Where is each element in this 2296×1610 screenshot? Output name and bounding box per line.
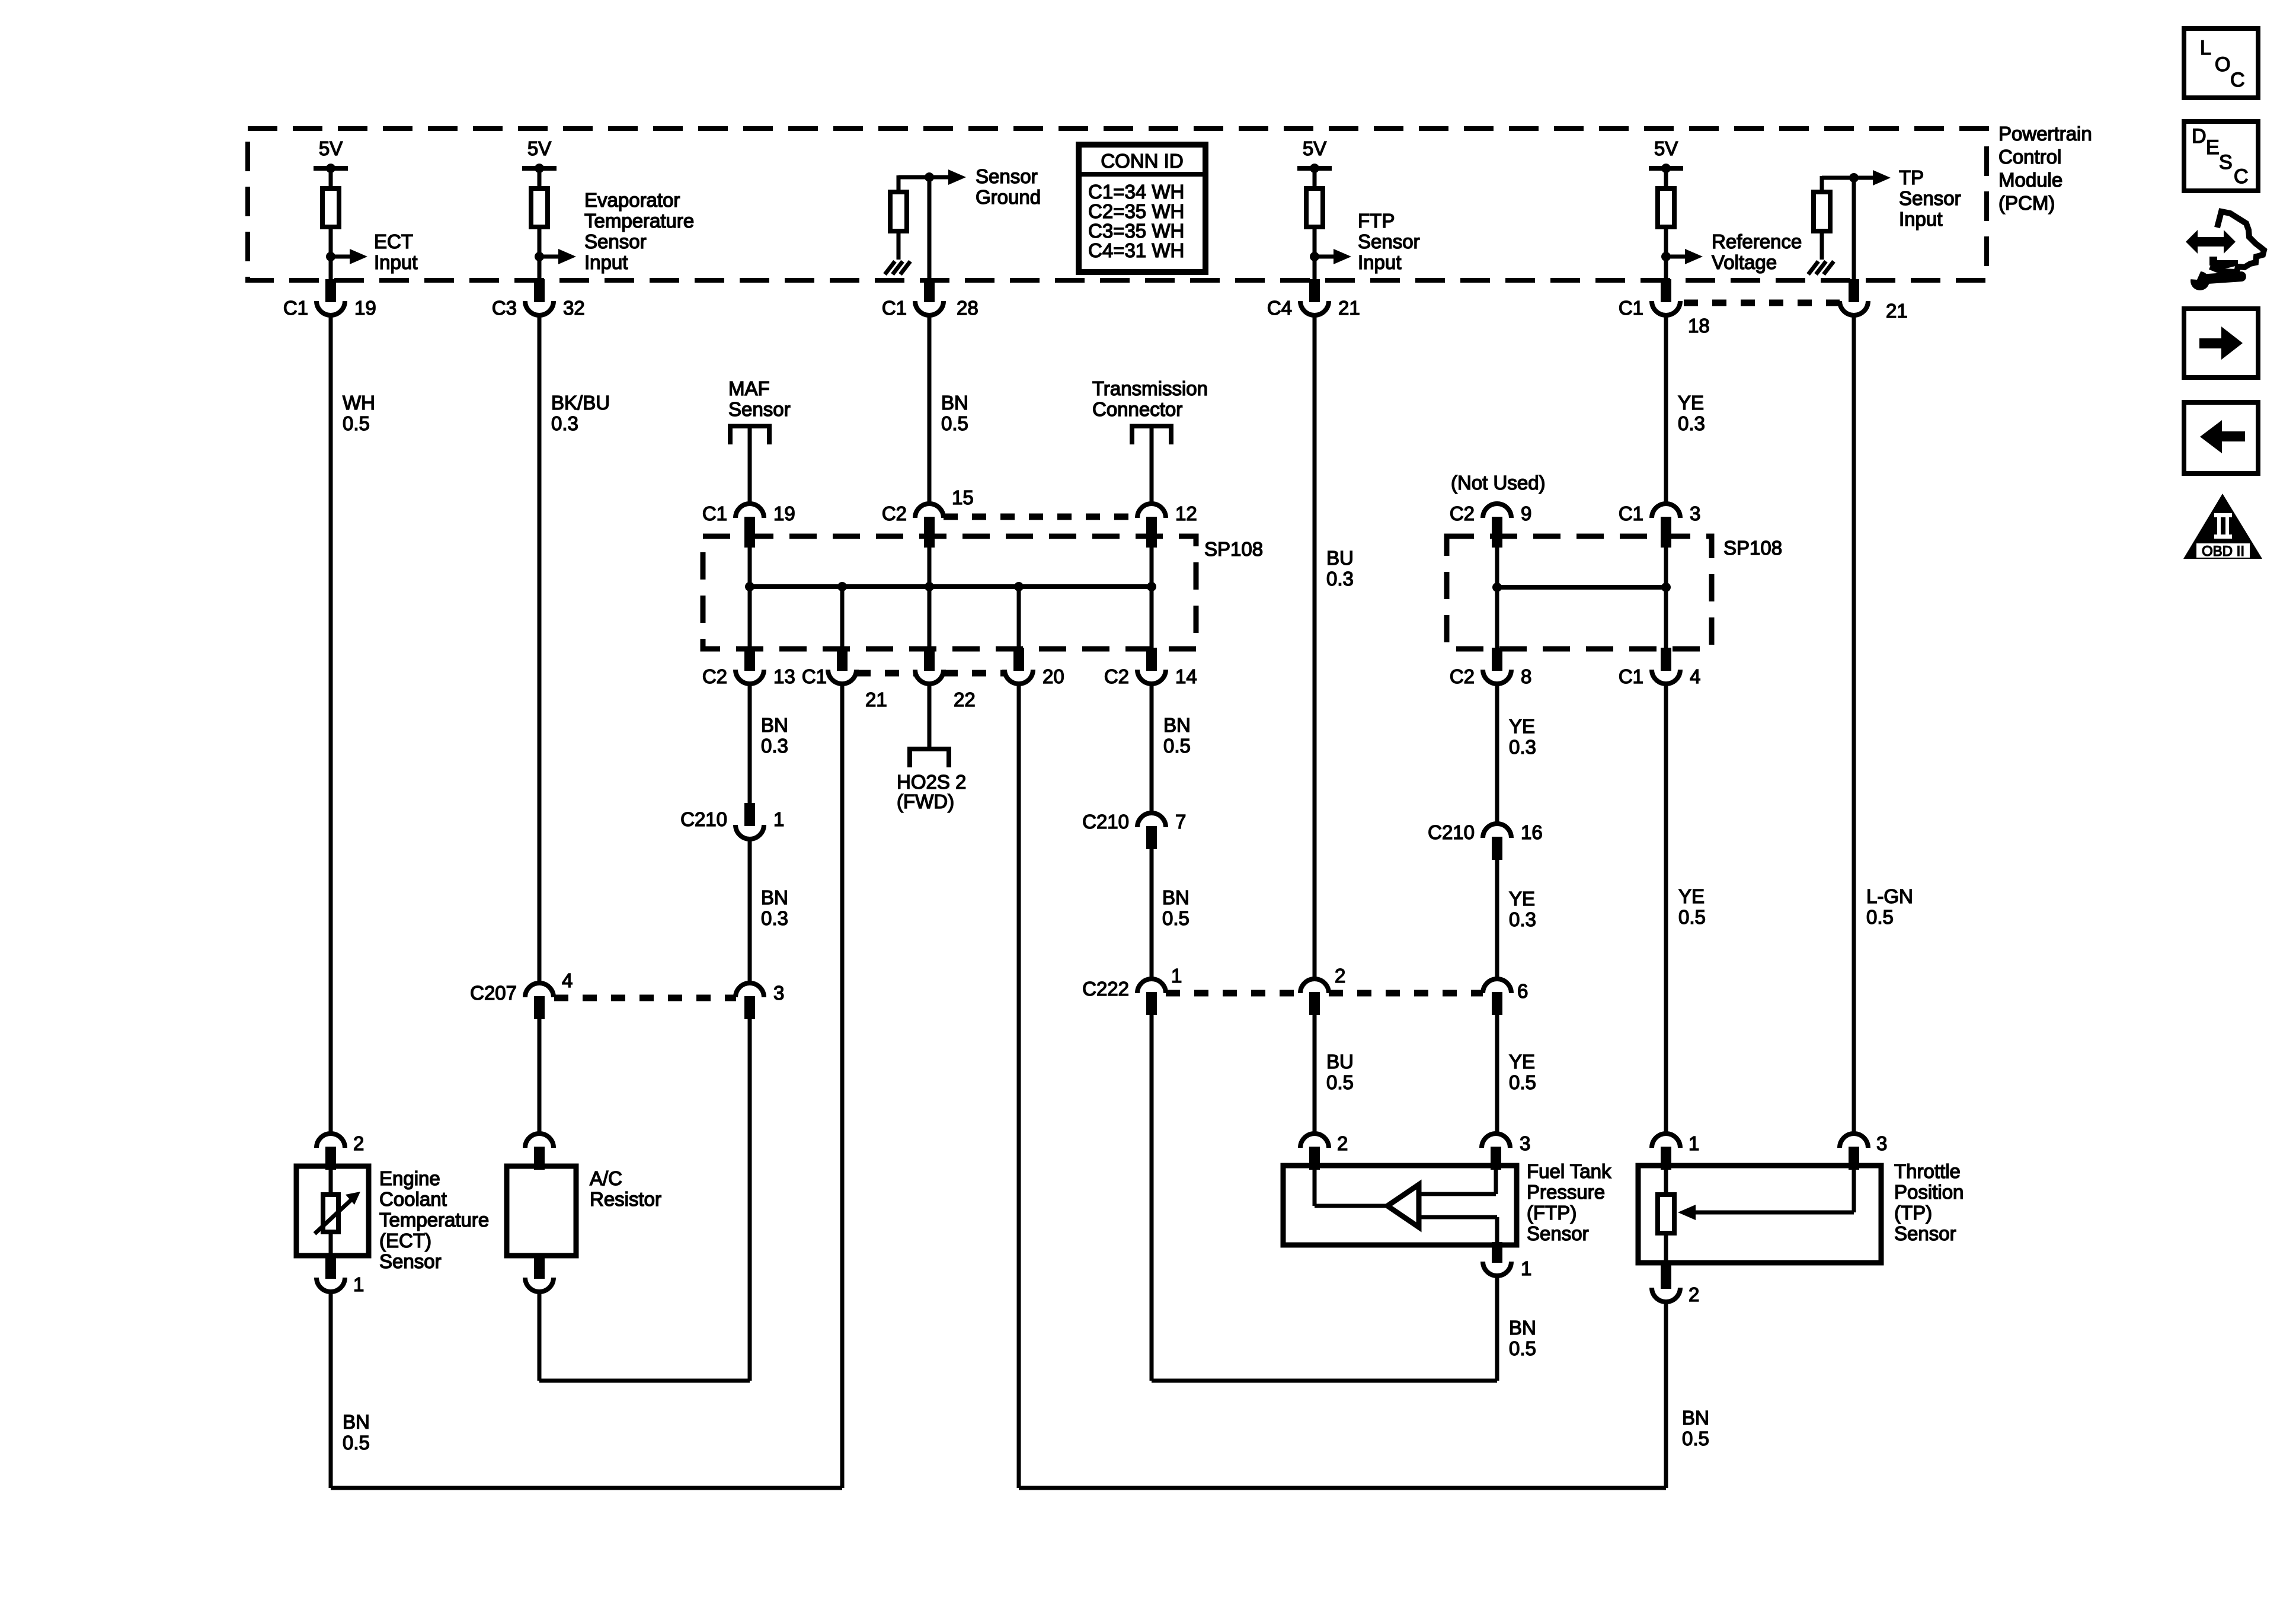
svg-text:2: 2: [353, 1132, 364, 1154]
svg-text:Input: Input: [1358, 251, 1401, 273]
wire MAF to C1 19: [748, 426, 752, 504]
svg-text:A/C: A/C: [590, 1167, 622, 1189]
svg-text:BN: BN: [1682, 1407, 1709, 1429]
CONN ID table box: [1079, 145, 1205, 272]
svg-text:21: 21: [865, 689, 887, 710]
wire TP pin2 down: [1664, 1302, 1668, 1488]
svg-text:C: C: [2230, 69, 2245, 91]
pull-up resistor (ECT): [322, 188, 339, 227]
connector C2 pin 9: [1483, 504, 1511, 518]
FTP sensor box: [1283, 1166, 1517, 1245]
wire stubs into left splice: [748, 540, 752, 587]
svg-text:0.5: 0.5: [1509, 1071, 1536, 1093]
svg-text:YE: YE: [1509, 888, 1535, 910]
svg-text:15: 15: [952, 486, 974, 508]
svg-text:0.3: 0.3: [551, 412, 578, 434]
ground run A/C to conn3: [539, 1379, 750, 1383]
svg-text:0.3: 0.3: [1326, 568, 1354, 590]
svg-text:Sensor: Sensor: [728, 398, 791, 420]
pull-up resistor (Ref): [1658, 188, 1674, 227]
svg-text:0.3: 0.3: [1678, 412, 1705, 434]
svg-text:Sensor: Sensor: [1899, 187, 1961, 209]
connector C1 pin 28 (PCM): [924, 279, 935, 302]
svg-text:Temperature: Temperature: [584, 210, 694, 232]
svg-text:C1: C1: [702, 502, 727, 524]
5V terminal bar (FTP): [1297, 166, 1332, 171]
svg-text:C: C: [2234, 165, 2249, 188]
Evap Input arrow: [535, 252, 544, 261]
pull-up resistor (FTP): [1306, 188, 1323, 227]
wire C2-14 to C210-7: [1150, 684, 1154, 813]
svg-text:Sensor: Sensor: [1358, 231, 1420, 252]
wire TP node to pin: [1852, 178, 1856, 279]
wire Evap column upper: [538, 315, 542, 983]
connector C222 pin 1: [1137, 979, 1166, 993]
connector pin 12: [1137, 504, 1166, 518]
svg-text:C2: C2: [882, 502, 907, 524]
svg-text:22: 22: [954, 689, 976, 710]
svg-text:21: 21: [1886, 300, 1908, 322]
connector C1 pin 19 (MAF): [736, 504, 764, 518]
wire C1-4 to TP pin1: [1664, 684, 1668, 1134]
svg-text:C2: C2: [1104, 665, 1129, 687]
ECT Input arrow: [326, 252, 335, 261]
svg-text:28: 28: [957, 297, 978, 319]
svg-text:D: D: [2192, 125, 2207, 148]
svg-text:2: 2: [1335, 965, 1345, 987]
MAF Sensor connector bracket: [730, 426, 769, 444]
wire node to ground resistor: [898, 175, 929, 180]
svg-text:Voltage: Voltage: [1712, 251, 1777, 273]
connector FTP pin 3: [1482, 1134, 1510, 1148]
svg-text:7: 7: [1175, 811, 1186, 833]
TP pulldown resistor: [1814, 192, 1830, 231]
Sensor Ground arrow: [929, 175, 949, 180]
svg-text:1: 1: [773, 808, 784, 830]
TP internal pin1 lead: [1664, 1170, 1668, 1195]
svg-text:HO2S 2: HO2S 2: [897, 771, 966, 793]
svg-text:C210: C210: [1428, 821, 1475, 843]
svg-text:8: 8: [1521, 665, 1531, 687]
svg-text:1: 1: [1521, 1257, 1531, 1279]
svg-text:FTP: FTP: [1358, 210, 1395, 232]
ground run splice20 to TP pin2: [1019, 1486, 1666, 1490]
svg-text:(TP): (TP): [1894, 1202, 1932, 1224]
icon OBD II triangle: [2183, 494, 2262, 559]
svg-text:C4: C4: [1267, 297, 1292, 319]
svg-text:0.5: 0.5: [343, 1432, 370, 1454]
svg-text:C4=31 WH: C4=31 WH: [1088, 239, 1184, 261]
svg-text:0.5: 0.5: [1682, 1427, 1709, 1449]
pull-up resistor (Evap): [531, 188, 548, 227]
TP Sensor Input arrow: [1854, 176, 1874, 180]
svg-text:0.5: 0.5: [1509, 1337, 1536, 1359]
wire A/C bottom down: [538, 1292, 542, 1381]
svg-text:BN: BN: [1163, 714, 1191, 736]
5V terminal bar (Evap): [522, 166, 557, 171]
svg-text:Sensor: Sensor: [584, 231, 647, 252]
svg-text:BU: BU: [1326, 1051, 1354, 1073]
connector A/C bottom pin: [534, 1256, 545, 1279]
wire 21 drop (to ECT gnd run): [840, 684, 845, 1488]
chassis ground symbol (TP): [1808, 261, 1818, 274]
svg-text:18: 18: [1688, 315, 1710, 337]
junction dots left bus: [745, 582, 754, 591]
wire conn3 to AC run: [748, 1019, 752, 1381]
wire 5V to resistor (Ref): [1664, 168, 1668, 188]
svg-text:Input: Input: [374, 251, 417, 273]
svg-text:Sensor: Sensor: [1894, 1222, 1956, 1244]
svg-text:WH: WH: [343, 392, 375, 414]
connector C1 pin 21: [837, 648, 848, 671]
svg-text:Module: Module: [1998, 169, 2062, 191]
svg-text:YE: YE: [1678, 392, 1704, 414]
icon diagnostic housing outline: [2210, 212, 2264, 272]
svg-text:1: 1: [353, 1273, 364, 1295]
ground run ECT to splice (via C1-21): [331, 1486, 842, 1490]
svg-text:9: 9: [1521, 502, 1531, 524]
dotted link C222 1-2-6: [1166, 990, 1300, 997]
svg-text:Ground: Ground: [976, 186, 1041, 208]
wire 5V to resistor (ECT): [329, 168, 333, 188]
5V terminal bar (ECT): [314, 166, 348, 171]
wire resistor to node (Ref): [1664, 227, 1668, 279]
wire resistor to node (FTP): [1313, 227, 1317, 279]
svg-text:0.5: 0.5: [941, 412, 968, 434]
svg-text:C222: C222: [1082, 978, 1129, 1000]
FTP transducer arrowhead: [1387, 1185, 1419, 1227]
connector C4 pin 21 (PCM): [1309, 279, 1320, 302]
wire conn2 to FTP pin2: [1313, 1015, 1317, 1134]
svg-text:C3=35 WH: C3=35 WH: [1088, 220, 1184, 242]
svg-text:MAF: MAF: [728, 377, 770, 399]
ground resistor: [890, 192, 907, 231]
connector C210 pin 7: [1137, 813, 1166, 827]
svg-text:2: 2: [1689, 1283, 1699, 1305]
wire node to TP resistor: [1822, 176, 1854, 180]
svg-text:SP108: SP108: [1723, 537, 1782, 559]
connector C210 pin 16: [1483, 824, 1511, 838]
ECT thermistor arrow: [315, 1196, 356, 1234]
svg-text:Fuel Tank: Fuel Tank: [1527, 1160, 1611, 1182]
svg-text:Input: Input: [1899, 208, 1942, 230]
svg-text:C1: C1: [283, 297, 308, 319]
connector ECT pin 2: [316, 1134, 345, 1148]
svg-text:Throttle: Throttle: [1894, 1160, 1961, 1182]
chassis ground symbol: [885, 261, 895, 274]
svg-text:C207: C207: [470, 982, 517, 1004]
connector C2 pin 15: [915, 504, 944, 518]
connector A/C top pin: [525, 1134, 554, 1148]
Transmission connector bracket: [1132, 426, 1171, 444]
A/C resistor box: [507, 1166, 576, 1256]
wire stubs into right splice: [1495, 540, 1499, 587]
wire C222-1 to FTP gnd run: [1150, 1015, 1154, 1381]
svg-text:O: O: [2215, 53, 2230, 76]
wire FTP pin1 down: [1495, 1276, 1499, 1381]
ground run C222-1 to FTP pin1: [1152, 1379, 1497, 1383]
svg-text:2: 2: [1337, 1132, 1348, 1154]
TP potentiometer resistor: [1658, 1195, 1674, 1233]
svg-text:4: 4: [562, 969, 573, 991]
connector TP pin 3: [1840, 1134, 1868, 1148]
icon forward arrow: [2199, 338, 2223, 348]
svg-text:21: 21: [1338, 297, 1360, 319]
FTP internal pin2 lead: [1313, 1170, 1317, 1206]
svg-text:16: 16: [1521, 821, 1543, 843]
wire resistor to node (ECT): [329, 227, 333, 279]
splice bus left: [750, 584, 1152, 589]
wire 20 drop (to TP gnd run): [1017, 684, 1021, 1488]
wire C207-4 to AC resistor: [538, 1019, 542, 1134]
svg-text:TP: TP: [1899, 167, 1924, 188]
svg-text:S: S: [2219, 151, 2233, 174]
connector C2 pin 13: [744, 648, 755, 671]
wire resistor to ground (TP): [1820, 231, 1824, 260]
CONN ID header separator: [1079, 172, 1205, 177]
svg-text:C210: C210: [680, 808, 727, 830]
svg-text:(FWD): (FWD): [897, 790, 954, 812]
wire 5V to resistor (Evap): [538, 168, 542, 188]
wire FTP column (PCM to conn 2): [1313, 315, 1317, 979]
svg-text:SP108: SP108: [1204, 538, 1263, 560]
svg-text:32: 32: [563, 297, 585, 319]
wire TP-input column (PCM to TP pin3): [1852, 315, 1856, 1134]
svg-text:C2: C2: [702, 665, 727, 687]
wire resistor to ground: [897, 231, 901, 260]
connector TP pin 1: [1652, 1134, 1680, 1148]
FTP Input arrow: [1310, 252, 1319, 261]
wire C2-8 to C210-16: [1495, 684, 1499, 824]
svg-text:0.3: 0.3: [1509, 908, 1536, 930]
svg-text:Temperature: Temperature: [379, 1209, 489, 1231]
junction dots right bus: [1492, 582, 1502, 592]
svg-text:C1: C1: [882, 297, 907, 319]
wire C210-7 to C222-1: [1150, 849, 1154, 979]
icon back arrow box: [2184, 402, 2258, 473]
svg-text:Connector: Connector: [1092, 398, 1182, 420]
icon diagnostic double arrow: [2186, 230, 2236, 254]
svg-text:Input: Input: [584, 251, 628, 273]
svg-text:L-GN: L-GN: [1866, 885, 1913, 907]
svg-text:Evaporator: Evaporator: [584, 189, 680, 211]
svg-text:BN: BN: [1509, 1317, 1536, 1339]
svg-text:C2: C2: [1450, 665, 1475, 687]
svg-text:BN: BN: [941, 392, 968, 414]
svg-text:Pressure: Pressure: [1527, 1181, 1605, 1203]
svg-text:0.5: 0.5: [1326, 1071, 1354, 1093]
svg-text:C1=34 WH: C1=34 WH: [1088, 181, 1184, 203]
svg-text:BN: BN: [761, 886, 788, 908]
svg-text:Control: Control: [1998, 146, 2061, 168]
connector FTP pin 1: [1492, 1242, 1502, 1263]
connector C3 pin 32 (PCM): [534, 279, 545, 302]
TP input node dot: [1849, 173, 1859, 183]
svg-text:Sensor: Sensor: [379, 1250, 442, 1272]
svg-text:Resistor: Resistor: [590, 1188, 661, 1210]
wire 5V to resistor (FTP): [1313, 168, 1317, 188]
connector pin 2 (C222): [1300, 979, 1329, 993]
connector pin 3 (C207): [736, 983, 764, 997]
svg-text:YE: YE: [1509, 715, 1535, 737]
wire ECT pin1 down: [329, 1292, 333, 1488]
wire resistor to node (Evap): [538, 227, 542, 279]
svg-text:14: 14: [1175, 665, 1197, 687]
svg-text:YE: YE: [1509, 1051, 1535, 1073]
dotted link 21-22-20: [856, 670, 915, 677]
svg-text:Sensor: Sensor: [1527, 1222, 1589, 1244]
wire sensor-ground node to pin: [928, 177, 932, 279]
svg-text:(Not Used): (Not Used): [1451, 472, 1546, 494]
connector C2 pin 14: [1146, 648, 1157, 671]
FTP internal pin3 lead: [1494, 1170, 1498, 1194]
wire into ECT thermistor: [329, 1170, 333, 1195]
svg-text:E: E: [2206, 136, 2220, 159]
wire Transmission to 12: [1150, 426, 1154, 504]
TP sensor box: [1638, 1166, 1881, 1263]
svg-text:0.3: 0.3: [761, 735, 788, 757]
svg-text:OBD II: OBD II: [2202, 543, 2244, 559]
connector C1 pin 19 (PCM): [325, 279, 336, 302]
svg-text:Coolant: Coolant: [379, 1188, 447, 1210]
svg-text:BN: BN: [343, 1411, 370, 1433]
svg-text:13: 13: [773, 665, 795, 687]
connector C2 pin 8: [1492, 648, 1502, 671]
splice SP108 right dashed box: [1447, 536, 1712, 649]
svg-text:Position: Position: [1894, 1181, 1964, 1203]
svg-text:C2=35 WH: C2=35 WH: [1088, 200, 1184, 222]
svg-text:1: 1: [1689, 1132, 1699, 1154]
icon diagnostic bar: [2209, 257, 2238, 270]
icon forward arrow box: [2184, 309, 2258, 377]
svg-text:5V: 5V: [527, 137, 551, 159]
svg-text:0.3: 0.3: [1509, 736, 1536, 758]
connector C1 pin 18 (PCM): [1661, 279, 1671, 302]
connector ECT pin 1: [325, 1256, 336, 1279]
svg-text:(ECT): (ECT): [379, 1230, 431, 1251]
connector C207 pin 4: [525, 983, 554, 997]
icon wrench: [2191, 271, 2209, 290]
connector C210 pin 1: [744, 803, 755, 826]
TP internal pin3 lead: [1852, 1170, 1856, 1212]
svg-text:BN: BN: [1162, 886, 1189, 908]
icon DESC box: [2184, 121, 2258, 191]
FTP internal pin1 lead: [1419, 1215, 1497, 1219]
svg-text:(PCM): (PCM): [1998, 192, 2055, 214]
dotted link 15 to 12: [944, 514, 1137, 520]
svg-text:0.5: 0.5: [1162, 907, 1189, 929]
wire C210-1 to conn 3: [748, 839, 752, 983]
svg-text:0.5: 0.5: [343, 412, 370, 434]
svg-text:3: 3: [1690, 502, 1700, 524]
svg-text:0.5: 0.5: [1678, 906, 1706, 928]
svg-text:BU: BU: [1326, 547, 1354, 569]
svg-text:C210: C210: [1082, 811, 1129, 833]
icon back arrow: [2221, 431, 2245, 441]
connector pin 20: [1013, 648, 1024, 671]
svg-text:4: 4: [1690, 665, 1700, 687]
ECT thermistor resistor: [323, 1195, 338, 1232]
wire C2-13 to C210-1: [748, 684, 752, 811]
wire ref-voltage column upper: [1664, 315, 1668, 504]
connector TP pin 2: [1661, 1263, 1671, 1289]
svg-text:BK/BU: BK/BU: [551, 392, 610, 414]
svg-text:3: 3: [1876, 1132, 1887, 1154]
svg-text:5V: 5V: [1303, 137, 1326, 159]
svg-text:Powertrain: Powertrain: [1998, 123, 2092, 145]
svg-text:C3: C3: [492, 297, 517, 319]
splice SP108 left dashed box: [703, 536, 1196, 649]
svg-text:Engine: Engine: [379, 1167, 440, 1189]
svg-text:C1: C1: [1619, 502, 1643, 524]
svg-text:C1: C1: [1619, 665, 1643, 687]
svg-text:C2: C2: [1450, 502, 1475, 524]
TP wiper arrow: [1696, 1211, 1854, 1215]
svg-text:6: 6: [1517, 980, 1528, 1002]
5V terminal bar (Ref): [1649, 166, 1683, 171]
svg-text:0.5: 0.5: [1163, 735, 1191, 757]
wire conn6 to FTP pin3: [1495, 1015, 1499, 1134]
svg-text:Transmission: Transmission: [1092, 377, 1208, 399]
svg-text:19: 19: [354, 297, 376, 319]
wire 22 to HO2S: [928, 684, 932, 749]
svg-text:Sensor: Sensor: [976, 165, 1038, 187]
svg-text:19: 19: [773, 502, 795, 524]
sensor ground node dot: [925, 172, 934, 182]
svg-text:5V: 5V: [319, 137, 343, 159]
svg-text:1: 1: [1171, 965, 1182, 987]
svg-text:L: L: [2200, 37, 2211, 59]
connector C1 pin 4: [1661, 648, 1671, 671]
wire ECT column (PCM to ECT sensor): [329, 315, 333, 1134]
Reference Voltage arrow: [1661, 252, 1671, 261]
svg-text:3: 3: [773, 982, 784, 1004]
svg-text:12: 12: [1175, 502, 1197, 524]
connector C1 pin 3: [1652, 504, 1680, 518]
connector pin 22: [924, 648, 935, 671]
svg-text:3: 3: [1520, 1132, 1530, 1154]
connector FTP pin 2: [1300, 1134, 1329, 1148]
svg-text:CONN ID: CONN ID: [1101, 150, 1183, 172]
svg-text:C1: C1: [1619, 297, 1643, 319]
wire bus drops right: [1495, 587, 1499, 648]
svg-text:20: 20: [1043, 665, 1064, 687]
svg-text:0.3: 0.3: [761, 907, 788, 929]
connector pin 6 (C222): [1483, 979, 1511, 993]
svg-text:ECT: ECT: [374, 231, 413, 252]
wire sensor-ground column upper: [928, 315, 932, 504]
HO2S 2 connector bracket: [910, 749, 949, 767]
svg-text:5V: 5V: [1654, 137, 1678, 159]
svg-text:(FTP): (FTP): [1527, 1202, 1576, 1224]
ECT sensor box: [296, 1166, 369, 1256]
svg-text:BN: BN: [761, 714, 788, 736]
connector pin 21 right (PCM): [1849, 279, 1859, 302]
dotted link pin18 to pin21: [1684, 300, 1840, 306]
wire C210-16 to conn 6: [1495, 860, 1499, 979]
svg-text:0.5: 0.5: [1866, 906, 1894, 928]
wire bus drops left: [840, 587, 845, 648]
svg-text:Reference: Reference: [1712, 231, 1802, 252]
PCM module dashed border: [248, 129, 1987, 280]
splice bus right: [1497, 585, 1666, 590]
svg-text:C1: C1: [802, 665, 827, 687]
dotted link C207 4-3: [554, 995, 736, 1001]
svg-text:YE: YE: [1678, 885, 1705, 907]
icon LOC box: [2184, 28, 2258, 98]
